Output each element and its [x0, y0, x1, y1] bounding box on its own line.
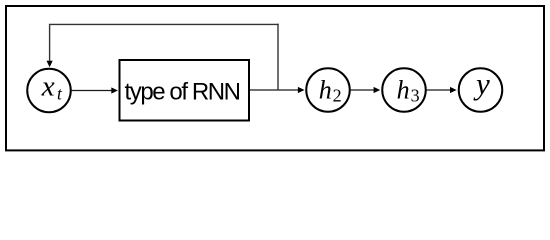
svg-text:x: x [41, 70, 55, 102]
box U1 type of RNN [120, 60, 250, 121]
wire h3 to y [427, 89, 453, 91]
svg-text:3: 3 [411, 85, 420, 105]
svg-text:2: 2 [333, 85, 342, 105]
svg-text:y: y [473, 66, 490, 101]
svg-text:type of RNN: type of RNN [125, 78, 240, 105]
wire h2 to h3 [351, 89, 376, 91]
node h2 circle [306, 68, 350, 112]
svg-text:h: h [319, 76, 332, 105]
wire feedback vertical right [277, 24, 279, 90]
node x_t circle [27, 69, 71, 113]
wire x_t to box [72, 90, 113, 92]
node h3 circle [382, 68, 426, 112]
arrowhead into box [111, 87, 118, 93]
wire feedback vertical left down to x_t [49, 25, 51, 62]
wire feedback horizontal top [49, 23, 279, 25]
svg-text:h: h [397, 76, 410, 105]
arrowhead into y [450, 87, 457, 93]
wire box to h2 [250, 89, 300, 91]
arrowhead down into x_t [47, 61, 53, 68]
arrowhead into h2 [298, 87, 305, 93]
node y circle [459, 68, 503, 112]
border frame [6, 6, 544, 150]
arrowhead into h3 [374, 87, 381, 93]
